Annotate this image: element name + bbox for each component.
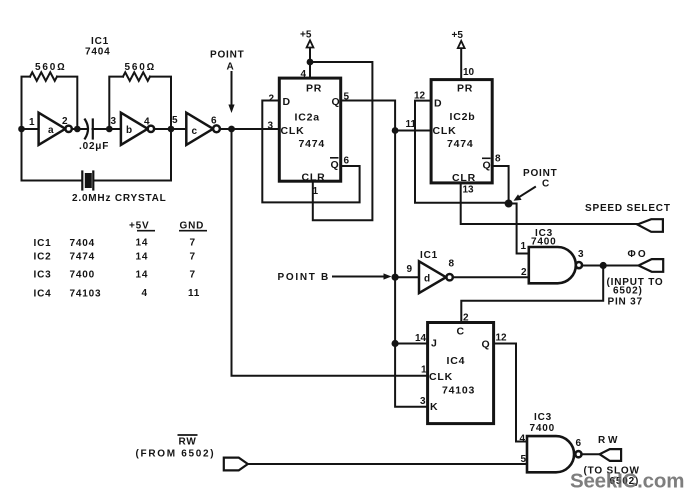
svg-text:IC1: IC1 (91, 36, 109, 47)
svg-text:560Ω: 560Ω (125, 62, 157, 73)
svg-text:1: 1 (421, 365, 427, 376)
svg-text:6: 6 (576, 438, 582, 449)
svg-text:D: D (434, 98, 442, 110)
svg-text:3: 3 (268, 121, 274, 132)
svg-text:6: 6 (211, 116, 217, 127)
svg-text:74103: 74103 (442, 385, 475, 397)
svg-text:ΦO: ΦO (628, 249, 648, 260)
svg-text:8: 8 (449, 259, 455, 270)
svg-text:14: 14 (136, 270, 149, 281)
svg-text:4: 4 (144, 117, 150, 128)
svg-text:8: 8 (495, 154, 501, 165)
svg-text:c: c (192, 126, 198, 137)
svg-text:POINT B: POINT B (278, 272, 330, 283)
svg-text:Q: Q (482, 339, 491, 351)
svg-text:3: 3 (420, 396, 426, 407)
svg-text:4: 4 (142, 288, 148, 299)
svg-text:IC1: IC1 (34, 238, 52, 249)
svg-text:7474: 7474 (70, 252, 95, 263)
svg-text:1: 1 (29, 117, 35, 128)
svg-text:IC3: IC3 (534, 412, 552, 423)
svg-text:Q: Q (483, 160, 492, 172)
svg-text:7474: 7474 (447, 138, 474, 150)
svg-text:D: D (283, 96, 291, 108)
svg-text:+5V: +5V (129, 221, 149, 232)
svg-text:SPEED SELECT: SPEED SELECT (585, 203, 671, 214)
svg-text:7404: 7404 (85, 47, 110, 58)
svg-text:IC2: IC2 (34, 252, 52, 263)
svg-text:560Ω: 560Ω (35, 62, 67, 73)
svg-text:12: 12 (414, 91, 426, 102)
svg-text:.02μF: .02μF (79, 141, 109, 152)
svg-text:2.0MHz CRYSTAL: 2.0MHz CRYSTAL (72, 193, 167, 204)
svg-text:7400: 7400 (70, 270, 95, 281)
svg-text:6502): 6502) (613, 286, 643, 297)
svg-text:11: 11 (406, 119, 417, 130)
svg-text:K: K (430, 401, 438, 413)
svg-text:7400: 7400 (530, 423, 555, 434)
svg-text:7474: 7474 (299, 138, 326, 150)
svg-text:14: 14 (136, 252, 149, 263)
svg-text:IC3: IC3 (34, 270, 52, 281)
svg-text:+5: +5 (452, 30, 464, 41)
svg-text:7: 7 (190, 238, 196, 249)
svg-text:14: 14 (136, 238, 149, 249)
svg-text:IC4: IC4 (447, 355, 466, 367)
svg-text:14: 14 (415, 333, 427, 344)
svg-text:3: 3 (111, 116, 117, 127)
svg-text:7: 7 (190, 270, 196, 281)
svg-text:IC2a: IC2a (295, 112, 320, 124)
svg-text:IC1: IC1 (420, 250, 438, 261)
svg-text:2: 2 (269, 94, 275, 105)
svg-text:Q: Q (332, 96, 341, 108)
svg-text:IC4: IC4 (34, 289, 52, 300)
svg-text:7404: 7404 (70, 238, 95, 249)
svg-text:POINT: POINT (210, 50, 245, 61)
svg-text:7400: 7400 (531, 237, 556, 248)
svg-text:5: 5 (344, 92, 350, 103)
svg-text:13: 13 (463, 185, 475, 196)
svg-text:a: a (48, 125, 54, 136)
svg-text:1: 1 (521, 241, 527, 252)
svg-text:C: C (457, 326, 465, 338)
svg-text:PR: PR (306, 83, 322, 95)
svg-text:11: 11 (188, 288, 200, 299)
svg-text:GND: GND (180, 221, 205, 232)
svg-text:12: 12 (496, 333, 508, 344)
svg-text:3: 3 (578, 249, 584, 260)
svg-text:5: 5 (172, 115, 178, 126)
svg-text:Q: Q (331, 159, 340, 171)
svg-text:RW: RW (179, 437, 197, 448)
svg-text:CLR: CLR (302, 172, 326, 184)
svg-text:PR: PR (457, 83, 473, 95)
svg-text:6: 6 (344, 156, 350, 167)
svg-text:CLK: CLK (281, 125, 305, 137)
svg-text:4: 4 (301, 69, 307, 80)
svg-text:CLR: CLR (452, 172, 476, 184)
svg-text:+5: +5 (300, 30, 312, 41)
svg-text:A: A (227, 62, 235, 73)
svg-text:IC2b: IC2b (450, 111, 476, 123)
svg-text:5: 5 (521, 454, 527, 465)
svg-text:2: 2 (463, 313, 469, 324)
svg-text:CLK: CLK (429, 371, 453, 383)
svg-text:b: b (126, 125, 132, 136)
svg-text:10: 10 (463, 67, 475, 78)
svg-text:SeekIC.com: SeekIC.com (570, 470, 684, 493)
svg-text:RW: RW (598, 435, 620, 446)
svg-text:1: 1 (313, 186, 319, 197)
svg-text:POINT: POINT (523, 168, 558, 179)
svg-text:(FROM 6502): (FROM 6502) (136, 449, 216, 460)
svg-text:CLK: CLK (433, 125, 457, 137)
svg-text:C: C (542, 179, 550, 190)
svg-text:9: 9 (407, 264, 413, 275)
svg-text:J: J (431, 338, 438, 350)
svg-text:2: 2 (62, 116, 68, 127)
svg-text:4: 4 (520, 434, 526, 445)
svg-text:7: 7 (190, 252, 196, 263)
svg-text:2: 2 (521, 267, 527, 278)
svg-text:PIN 37: PIN 37 (608, 297, 643, 308)
svg-text:74103: 74103 (70, 289, 102, 300)
svg-text:d: d (424, 274, 430, 285)
